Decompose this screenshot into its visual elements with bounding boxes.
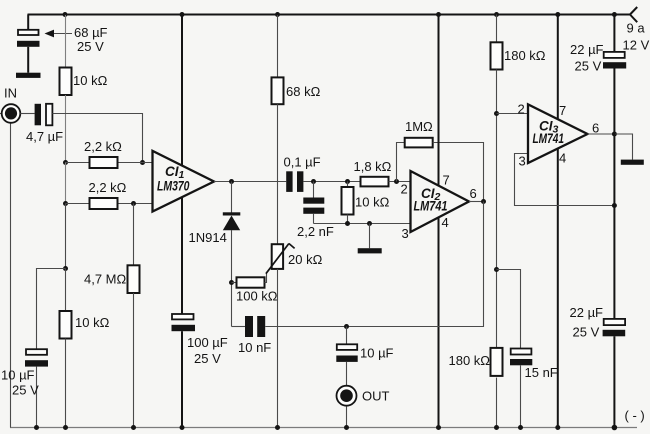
wire 4,7uF to corner and down to CI1 + input (52, 114, 142, 163)
wire CI1 output to 1N914 (231, 182, 233, 214)
node dot top rail CI3 supply (555, 12, 560, 17)
svg-text:6: 6 (470, 186, 477, 201)
node dot top rail output line (612, 12, 617, 17)
wire 4,7M to bottom rail (133, 293, 135, 428)
wire tap down to 2,2nF (313, 182, 315, 198)
wire 1,8k to CI2 -input (389, 181, 411, 183)
wire divider to 15nF (497, 270, 521, 349)
wire rail to 180k top (496, 15, 498, 43)
resistor 10k (mid) (347, 182, 349, 188)
svg-text:10 µF: 10 µF (1, 368, 35, 383)
wire 22uF to output node (613, 69, 615, 319)
svg-text:3: 3 (519, 154, 526, 169)
node dot 2,2nF tap (311, 179, 316, 184)
node dot 10uF branch (63, 266, 68, 271)
resistor 4,7M (128, 265, 140, 293)
capacitor 15nF (511, 349, 532, 355)
ground bar below 68uF (16, 73, 41, 78)
svg-text:12 V: 12 V (623, 38, 650, 53)
node dot lower row left (63, 201, 68, 206)
wire pot to bottom rail (277, 269, 279, 428)
wire 100k left stub (232, 282, 237, 284)
resistor 2,2k (upper) (90, 157, 118, 168)
node dot CI2 output (481, 199, 486, 204)
svg-text:1,8 kΩ: 1,8 kΩ (354, 159, 392, 174)
wire 22uF to bottom rail (613, 336, 615, 427)
wire 10k down to input network (65, 95, 67, 163)
resistor 1,8k (361, 177, 389, 187)
wire to CI3 pin 2 (497, 113, 529, 115)
node dot bottom rail CI3 supply (555, 425, 560, 430)
wire 68uF to ground (27, 47, 29, 73)
wire to CI2 ground (369, 224, 371, 249)
wire output line rail to 22uF top (613, 15, 615, 52)
svg-text:180 kΩ: 180 kΩ (504, 48, 546, 63)
node dot 10k mid top (345, 179, 350, 184)
svg-text:LM741: LM741 (533, 131, 565, 146)
svg-text:25 V: 25 V (77, 39, 104, 54)
wire rail to 68k (277, 15, 279, 77)
wire 100uF to bottom rail (181, 331, 183, 427)
node dot bottom rail 10uF (34, 425, 39, 430)
wire divider line down (496, 70, 498, 348)
svg-text:22 µF: 22 µF (570, 42, 604, 57)
node dot CI1 -input / 4,7M top (131, 201, 136, 206)
wire stub top-left rail to C 68uF (27, 15, 29, 30)
svg-text:1N914: 1N914 (189, 230, 227, 245)
node dot 10k mid bottom (345, 221, 350, 226)
node dot bottom rail 15nF (518, 425, 523, 430)
wire 180k bottom to rail (496, 378, 498, 428)
wire x65 to bottom 10k (65, 269, 67, 312)
wire CI3 supply line x557.5 (557, 15, 559, 428)
resistor 10k (top-left bias) (60, 68, 72, 96)
node dot divider / 15nF (494, 267, 499, 272)
svg-text:4: 4 (559, 151, 566, 166)
node dot bottom rail 4,7M (131, 425, 136, 430)
capacitor 2,2nF (303, 198, 324, 204)
svg-text:10 nF: 10 nF (238, 340, 271, 355)
svg-text:22 µF: 22 µF (570, 305, 604, 320)
OUT jack connector (337, 386, 357, 406)
resistor 180k (bottom) (491, 348, 503, 376)
wire 2,2k bottom row (66, 203, 153, 205)
left rail wire from IN jack down to bottom rail (10, 123, 12, 428)
wire 1N914 down (231, 230, 233, 327)
svg-text:20 kΩ: 20 kΩ (288, 252, 323, 267)
wire x65 down to 10uF branch node (65, 204, 67, 269)
wire 2,2k top row (66, 162, 153, 164)
svg-text:2: 2 (518, 102, 525, 117)
svg-text:1MΩ: 1MΩ (405, 119, 433, 134)
svg-text:100 µF: 100 µF (187, 335, 228, 350)
resistor 100k (237, 277, 265, 287)
wire OUT branch to 10uF (346, 327, 348, 345)
wire 10k to bottom rail (65, 339, 67, 428)
ground bar CI3 output (621, 160, 644, 165)
svg-text:68 µF: 68 µF (74, 25, 108, 40)
node dot bottom rail CI2 supply (436, 425, 441, 430)
svg-text:6: 6 (592, 121, 599, 136)
node dot CI1 output / diode (229, 179, 234, 184)
node dot top rail / 10k bias (63, 12, 68, 17)
wire branch to 10uF cap (37, 269, 66, 350)
svg-text:4: 4 (442, 215, 449, 230)
svg-text:( - ): ( - ) (625, 408, 645, 423)
op-amp CI1 LM370 (153, 151, 215, 212)
wire rail to R 10k (65, 15, 67, 68)
resistor 68k (272, 77, 284, 104)
wire CI1 output (214, 181, 286, 183)
svg-text:25 V: 25 V (194, 351, 221, 366)
potentiometer 20k body (272, 244, 283, 269)
node dot bottom rail divider (494, 425, 499, 430)
svg-text:25 V: 25 V (12, 383, 39, 398)
op-amp CI2 LM741 (411, 171, 470, 232)
node dot CI2 -input / feedback (394, 179, 399, 184)
svg-text:10 kΩ: 10 kΩ (355, 195, 390, 210)
svg-text:10 kΩ: 10 kΩ (73, 73, 108, 88)
svg-text:OUT: OUT (362, 389, 390, 404)
svg-text:15 nF: 15 nF (525, 365, 558, 380)
IN jack connector (0, 113, 2, 115)
svg-text:7: 7 (443, 173, 450, 188)
resistor 1M (405, 138, 433, 148)
capacitor 10uF (output) (337, 344, 357, 350)
wire CI3 pin 3 feedback (515, 154, 615, 206)
wire OUT jack to bottom rail (346, 406, 348, 427)
wire 10uF to OUT jack (346, 362, 348, 386)
capacitor 22uF 25V (bottom-right) (604, 319, 625, 325)
svg-text:0,1 µF: 0,1 µF (284, 155, 321, 170)
wire CI1 supply line x180.7 (181, 15, 183, 315)
op-amp CI3 LM741 (528, 104, 588, 163)
svg-text:2,2 nF: 2,2 nF (297, 224, 334, 239)
svg-text:4,7 MΩ: 4,7 MΩ (84, 272, 127, 287)
capacitor 100uF 25V (172, 314, 194, 319)
node dot top rail 68k (275, 12, 280, 17)
node dot 100k junction (229, 280, 234, 285)
svg-text:4,7 µF: 4,7 µF (26, 129, 63, 144)
ground bar CI2 (358, 248, 382, 253)
wire CI2 output (469, 201, 484, 203)
node dot bottom rail 68k line (275, 425, 280, 430)
wire 0,1uF to CI2 input row (303, 181, 360, 183)
resistor 2,2k (lower) (90, 198, 118, 209)
wire 4,7M from CI1 -input down (133, 204, 135, 266)
node dot ground stub (367, 221, 372, 226)
resistor 180k (top) (491, 42, 503, 69)
wire ground row to CI2 -input (314, 223, 411, 225)
svg-text:10 µF: 10 µF (360, 346, 394, 361)
wire CI3 output (588, 133, 615, 135)
svg-text:LM370: LM370 (157, 179, 190, 194)
svg-text:100 kΩ: 100 kΩ (236, 289, 278, 304)
node dot top rail CI1 supply (180, 12, 185, 17)
svg-text:180 kΩ: 180 kΩ (449, 353, 491, 368)
node dot CI1 +input right (140, 160, 145, 165)
capacitor 10nF (245, 316, 253, 337)
node dot bottom rail 100uF (180, 425, 185, 430)
svg-text:9 a: 9 a (627, 21, 646, 36)
svg-text:3: 3 (402, 226, 409, 241)
node dot feedback on output line (612, 203, 617, 208)
node dot bottom rail OUT (344, 425, 349, 430)
wire CI2 supply line x437.7 (438, 15, 440, 428)
wire x65 between 2,2k rows (65, 163, 67, 204)
node dot CI1 +input left (63, 160, 68, 165)
node dot bottom rail x65 (63, 425, 68, 430)
svg-text:10 kΩ: 10 kΩ (75, 315, 110, 330)
svg-text:2,2 kΩ: 2,2 kΩ (84, 139, 122, 154)
node dot divider / CI3 +input (494, 111, 499, 116)
battery fork switch 9-12V (630, 7, 637, 22)
wire CI2 output down (265, 202, 483, 327)
wire 2,2nF down to ground row (313, 214, 315, 224)
node dot CI3 output (612, 132, 617, 137)
svg-text:IN: IN (4, 86, 17, 101)
wire 68k down to pot (277, 104, 279, 244)
capacitor 68uF 25V (18, 30, 39, 35)
capacitor 10uF 25V (bottom-left) (26, 349, 47, 355)
wire 15nF to bottom rail (520, 365, 522, 427)
svg-text:68 kΩ: 68 kΩ (286, 84, 321, 99)
wire 1M to CI2 output (433, 143, 484, 202)
node dot top rail divider (494, 12, 499, 17)
wire feedback up to 1M (397, 143, 405, 182)
svg-text:7: 7 (559, 103, 566, 118)
wire IN jack to 4,7uF (20, 113, 34, 115)
resistor 10k (bottom-left) (60, 311, 72, 339)
svg-text:25 V: 25 V (573, 325, 600, 340)
svg-text:25 V: 25 V (575, 59, 602, 74)
node dot bottom rail output line (612, 425, 618, 431)
svg-text:2: 2 (401, 182, 408, 197)
node dot top rail CI2 supply (436, 12, 441, 17)
potentiometer 20k wiper arrow (266, 244, 295, 274)
capacitor 0,1uF (286, 171, 292, 192)
wire 10uF to bottom rail (36, 367, 38, 428)
bottom negative supply rail (10, 427, 637, 429)
diode 1N914 (223, 212, 241, 215)
wire 100k to pot wiper (265, 274, 267, 283)
wire CI3 output to virtual ground (614, 134, 632, 160)
node dot OUT branch (344, 324, 349, 329)
wire 10nF to diode line (232, 326, 246, 328)
capacitor 4,7uF (35, 104, 41, 126)
svg-text:LM741: LM741 (414, 199, 448, 214)
capacitor 22uF 25V (top-right) (604, 52, 625, 58)
top positive supply rail (28, 14, 631, 16)
arrow pointing to 68uF (53, 33, 72, 35)
svg-text:2,2 kΩ: 2,2 kΩ (89, 180, 127, 195)
